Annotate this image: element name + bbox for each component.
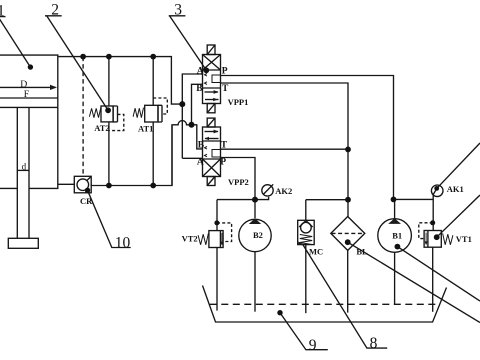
svg-text:2: 2 — [51, 2, 59, 19]
svg-text:CR: CR — [80, 196, 93, 206]
svg-text:MC: MC — [309, 247, 323, 257]
svg-text:B: B — [198, 141, 205, 151]
svg-text:A: A — [197, 66, 204, 76]
svg-text:VT1: VT1 — [456, 234, 472, 244]
svg-text:VT2: VT2 — [182, 234, 198, 244]
svg-text:T: T — [222, 84, 229, 94]
svg-text:1: 1 — [0, 3, 5, 20]
svg-text:BL: BL — [356, 247, 368, 257]
svg-text:B2: B2 — [253, 230, 263, 240]
svg-text:3: 3 — [174, 2, 182, 19]
svg-text:8: 8 — [370, 335, 378, 352]
svg-text:AT1: AT1 — [138, 124, 153, 134]
svg-text:10: 10 — [115, 235, 131, 252]
svg-text:T: T — [221, 141, 228, 151]
svg-text:A: A — [197, 158, 204, 168]
svg-text:P: P — [222, 66, 228, 76]
svg-text:9: 9 — [309, 337, 317, 354]
svg-text:AT2: AT2 — [94, 123, 109, 133]
svg-text:P: P — [220, 158, 226, 168]
svg-text:B1: B1 — [392, 231, 402, 241]
svg-text:AK2: AK2 — [275, 186, 292, 196]
svg-text:F: F — [24, 89, 30, 100]
svg-text:B: B — [196, 84, 203, 94]
svg-text:d: d — [22, 161, 27, 171]
svg-text:VPP1: VPP1 — [228, 97, 249, 107]
svg-text:VPP2: VPP2 — [228, 177, 249, 187]
svg-text:AK1: AK1 — [447, 184, 464, 194]
